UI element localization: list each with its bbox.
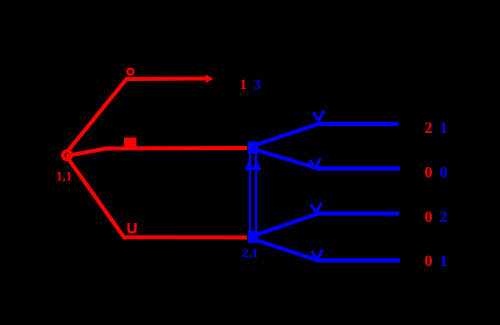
wire: horizontal blue line branch B: [316, 166, 400, 170]
wire: horizontal blue line branch C: [316, 211, 399, 215]
wire: information set double vertical line, left: [249, 154, 251, 232]
label: blue action glyph u' at branch C bend: [311, 203, 322, 213]
wire: blue edge upper node to branch A bend (up-right): [253, 124, 318, 146]
node: root decision node of player 1 (open red circle): [63, 151, 71, 159]
wire: edge root to middle bend then to blue node (player 1 action, red): [66, 148, 247, 156]
svg-text:3: 3: [254, 77, 261, 93]
svg-text:1: 1: [440, 253, 448, 270]
wire: edge root to top bend (player 1 action, red): [67, 79, 207, 153]
wire: blue edge lower node to branch C bend (up-right): [253, 214, 318, 237]
label: blue action glyph u' at branch A bend: [313, 111, 324, 121]
node: terminal node after top action (black disc, invisible on black): [214, 75, 225, 86]
svg-text:0: 0: [425, 253, 433, 270]
wire: blue edge lower node to branch D bend (down-right): [253, 239, 318, 261]
svg-text:2: 2: [425, 120, 433, 137]
node: top bend marker (open red circle): [127, 69, 133, 75]
arrowhead: upward double arrowheads below upper blue node: [245, 159, 254, 171]
svg-text:2,1: 2,1: [242, 245, 258, 260]
node: upper blue decision node (player 2, solid blue square): [248, 142, 258, 154]
wire: horizontal blue line branch D: [316, 258, 400, 262]
svg-text:1,1: 1,1: [56, 169, 72, 184]
svg-text:0: 0: [425, 209, 433, 226]
wire: edge root to bottom bend then to blue node (player 1 action, red): [67, 157, 247, 238]
svg-text:0: 0: [425, 165, 433, 182]
wire: horizontal blue line branch A: [316, 122, 398, 126]
svg-text:0: 0: [440, 165, 448, 182]
svg-text:2: 2: [440, 209, 448, 226]
node: middle bend marker (solid red square): [124, 138, 137, 148]
svg-text:1: 1: [240, 77, 247, 93]
node: bottom bend marker (red u-shape): [129, 223, 136, 233]
wire: blue edge upper node to branch B bend (down-right): [253, 149, 318, 169]
svg-text:1: 1: [440, 120, 448, 137]
node: lower blue decision node (player 2, solid blue square): [248, 231, 258, 243]
label: blue action glyph u' at branch D bend: [312, 250, 323, 260]
label: blue action glyph u' at branch B bend: [310, 158, 321, 168]
wire: information set double vertical line, right: [255, 154, 257, 232]
arrowhead: red arrow at end of top edge: [206, 75, 214, 84]
